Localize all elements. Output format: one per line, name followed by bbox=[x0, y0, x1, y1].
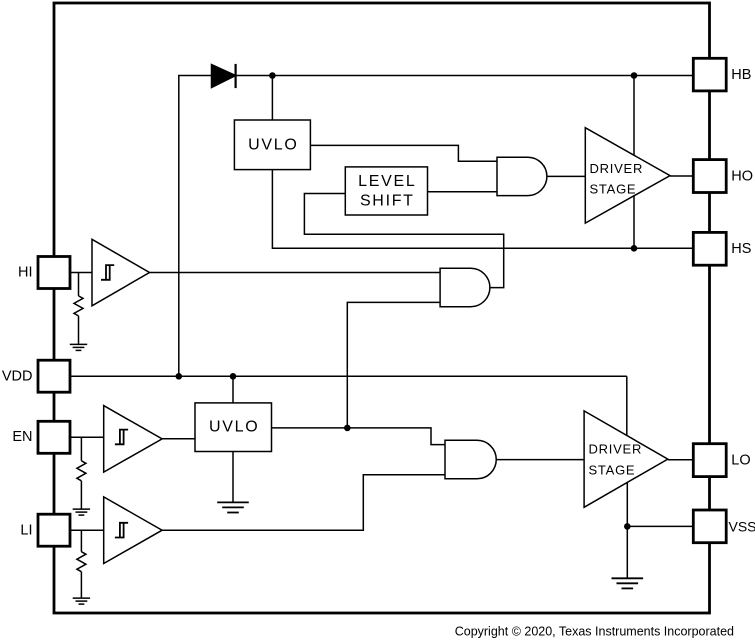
svg-text:HS: HS bbox=[731, 241, 751, 257]
node VDD riser junction bbox=[176, 373, 183, 380]
svg-text:UVLO: UVLO bbox=[248, 136, 298, 153]
driver stage U7 (low side) bbox=[584, 411, 668, 507]
pin LI bbox=[38, 514, 70, 546]
schmitt symbol (EN) bbox=[115, 430, 128, 445]
svg-text:EN: EN bbox=[12, 429, 32, 445]
svg-text:STAGE: STAGE bbox=[590, 182, 637, 197]
pin VDD bbox=[38, 360, 70, 392]
diode D1 (bootstrap) bbox=[212, 65, 236, 88]
pin HI bbox=[38, 257, 70, 289]
wire riser from VDD rail up to diode anode bbox=[179, 76, 212, 377]
wire AND1 output to driver1 bbox=[547, 175, 585, 177]
UVLO U4 (low side) bbox=[195, 403, 272, 452]
svg-text:LI: LI bbox=[20, 522, 32, 538]
driver stage U2 (high side) bbox=[585, 128, 670, 223]
svg-text:HB: HB bbox=[731, 67, 751, 83]
pin VSS bbox=[693, 510, 726, 543]
svg-text:STAGE: STAGE bbox=[589, 463, 636, 478]
ground (UVLO2) bbox=[217, 502, 249, 512]
svg-text:UVLO: UVLO bbox=[209, 419, 259, 436]
resistor R3 (LI pulldown) bbox=[80, 530, 82, 552]
wire LI buffer output to AND3 bottom input bbox=[162, 475, 445, 530]
wire VSS node to VSS pin bbox=[627, 525, 693, 527]
resistor R2 (EN pulldown) bbox=[80, 437, 82, 461]
wire UVLO2 bottom to ground bbox=[232, 452, 234, 503]
wire diode cathode to HB pin bbox=[236, 75, 694, 77]
resistor R1 (HI pulldown) bbox=[78, 273, 80, 296]
svg-text:Copyright © 2020, Texas Instru: Copyright © 2020, Texas Instruments Inco… bbox=[455, 625, 734, 639]
wire EN buffer output to UVLO2 bbox=[162, 438, 195, 440]
wire AND3 output to driver2 bbox=[496, 459, 584, 461]
svg-text:LEVEL: LEVEL bbox=[358, 173, 416, 190]
node VSS junction bbox=[624, 523, 631, 530]
wire UVLO1 bottom to HS pin (HS net) bbox=[272, 170, 693, 249]
svg-text:SHIFT: SHIFT bbox=[360, 193, 415, 210]
AND gate A3 (low side) bbox=[445, 440, 496, 479]
schmitt buffer U5 (EN) bbox=[104, 406, 162, 473]
ground (HI pulldown) bbox=[70, 344, 87, 350]
wire HB rail to driver1 top edge bbox=[633, 76, 635, 156]
wire HB node down to UVLO1 top bbox=[271, 76, 273, 121]
ground (LI pulldown) bbox=[73, 598, 90, 604]
wire HI buffer output to AND-mid top input bbox=[150, 272, 441, 274]
wire driver2 bottom edge to VSS node and ground bbox=[626, 483, 628, 579]
UVLO U1 (high side) bbox=[234, 120, 310, 170]
LI input wire to schmitt buffer bbox=[70, 529, 104, 531]
node HB-UVLO junction bbox=[269, 72, 276, 79]
schmitt buffer U3 (HI) bbox=[92, 239, 150, 305]
wire VDD rail corner down to driver2 top edge bbox=[626, 376, 628, 435]
ground (VSS) bbox=[612, 578, 644, 588]
HI input wire to schmitt buffer bbox=[70, 272, 92, 274]
node HB rail junction bbox=[631, 72, 638, 79]
wire driver1 bottom edge to HS net bbox=[633, 196, 635, 249]
svg-text:VDD: VDD bbox=[2, 368, 33, 384]
node HS rail junction bbox=[631, 245, 638, 252]
svg-text:LO: LO bbox=[731, 452, 750, 468]
ground (EN pulldown) bbox=[73, 509, 90, 515]
svg-text:DRIVER: DRIVER bbox=[590, 161, 644, 176]
wire LEVEL SHIFT output to AND1 bottom input bbox=[428, 191, 498, 193]
svg-text:HO: HO bbox=[731, 168, 753, 184]
node UVLO2 output junction bbox=[344, 425, 351, 432]
pin LO bbox=[693, 444, 726, 477]
EN input wire to schmitt buffer bbox=[70, 436, 104, 438]
pin HO bbox=[693, 160, 726, 193]
pin EN bbox=[38, 421, 70, 453]
wire VDD to UVLO2 top bbox=[232, 376, 234, 403]
schmitt symbol (HI) bbox=[101, 265, 114, 280]
wire driver1 output to HO pin bbox=[670, 175, 693, 177]
LEVEL SHIFT block bbox=[345, 167, 427, 215]
wire AND-mid bottom input from UVLO2 output node bbox=[347, 302, 440, 428]
node VDD-UVLO2 junction bbox=[230, 373, 237, 380]
pin HB bbox=[693, 58, 726, 91]
wire driver2 output to LO pin bbox=[668, 459, 694, 461]
svg-text:HI: HI bbox=[18, 265, 33, 281]
schmitt buffer U6 (LI) bbox=[104, 497, 162, 564]
AND gate A2 (middle, HI path) bbox=[440, 268, 490, 307]
wire VDD rail from VDD pin to bottom driver rail corner bbox=[70, 375, 627, 377]
schmitt symbol (LI) bbox=[115, 523, 128, 538]
svg-text:VSS: VSS bbox=[729, 519, 755, 535]
pin HS bbox=[693, 232, 726, 265]
wire UVLO1 output to AND1 top input bbox=[310, 145, 497, 161]
wire AND-mid output to LEVEL SHIFT input bbox=[304, 194, 503, 288]
wire UVLO2 output to AND3 top input bbox=[272, 428, 446, 445]
svg-text:DRIVER: DRIVER bbox=[589, 442, 643, 457]
AND gate A1 (high side) bbox=[497, 157, 547, 195]
